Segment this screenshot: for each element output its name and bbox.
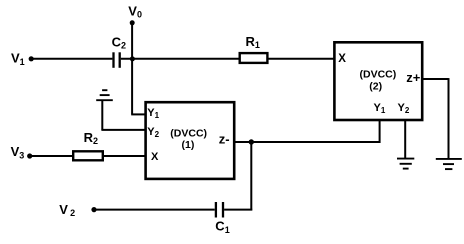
svg-text:X: X [338, 53, 346, 65]
node V1 terminal [29, 56, 34, 61]
node V0 terminal [130, 20, 135, 25]
wire V0 vertical stem [131, 23, 133, 114]
svg-text:z+: z+ [406, 70, 421, 85]
op-amp U2 DVCC(2) box [334, 42, 422, 120]
svg-text:X: X [151, 151, 159, 163]
wire U2 pin Y1 vertical [379, 119, 381, 143]
wire U2 z+ horizontal [422, 78, 449, 80]
wire R1 to U2 pin X [269, 58, 337, 60]
wire V1 to C2 [31, 58, 112, 60]
resistor R2 [73, 151, 103, 160]
wire C1 to J2 [224, 209, 252, 211]
capacitor C2 [114, 52, 120, 68]
ground GND3 [436, 159, 462, 169]
wire C2 to R1 [121, 58, 239, 60]
svg-text:(DVCC): (DVCC) [360, 68, 397, 80]
wire J2 to U2 Y1 horizontal [251, 141, 379, 143]
wire z+ down to GND3 [448, 78, 450, 158]
ground GND1 (inverted) [96, 90, 113, 100]
capacitor C1 [216, 202, 223, 218]
svg-text:(1): (1) [182, 139, 195, 151]
wire GND1 stem [101, 100, 103, 130]
op-amp U1 DVCC(1) box [146, 102, 235, 179]
wire U2 pin Y2 down to GND2 [404, 120, 406, 158]
svg-text:z-: z- [219, 132, 230, 147]
resistor R1 [240, 53, 268, 63]
wire V3 to R2 [30, 155, 73, 157]
svg-text:(2): (2) [369, 80, 382, 92]
wire into U1 pin Y2 [101, 129, 146, 131]
wire into U1 pin Y1 [131, 113, 146, 115]
node junction J1 [130, 56, 135, 61]
wire J2 down to C1 [250, 142, 252, 211]
wire U1 z- stub [234, 141, 252, 143]
node V3 terminal [27, 153, 32, 158]
wire R2 to U1 pin X [104, 155, 146, 157]
node V2 terminal [91, 207, 96, 212]
wire V2 to C1 [94, 209, 215, 211]
ground GND2 [397, 159, 414, 169]
svg-text:(DVCC): (DVCC) [170, 128, 207, 140]
node junction J2 [249, 139, 254, 144]
